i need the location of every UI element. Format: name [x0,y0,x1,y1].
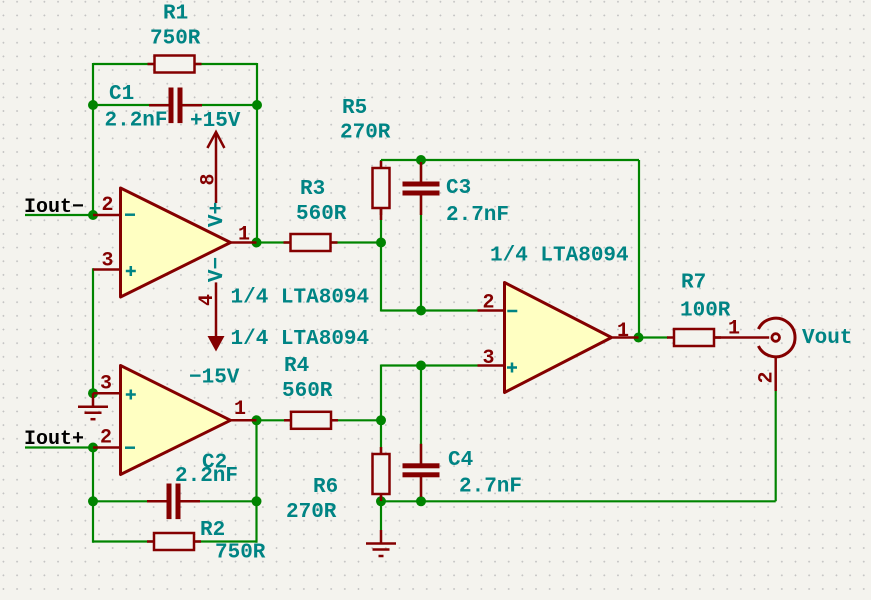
svg-text:Iout−: Iout− [24,196,84,219]
svg-text:560R: 560R [296,203,347,226]
svg-text:8: 8 [197,173,220,185]
svg-text:1/4 LTA8094: 1/4 LTA8094 [231,328,370,351]
svg-text:+15V: +15V [190,110,241,133]
svg-text:270R: 270R [340,121,391,144]
svg-text:V−: V− [206,257,229,282]
svg-text:3: 3 [483,347,495,370]
svg-text:2: 2 [102,194,114,217]
svg-text:R3: R3 [300,178,325,201]
svg-text:100R: 100R [680,299,731,322]
svg-text:R1: R1 [163,2,188,25]
svg-text:2: 2 [100,426,112,449]
svg-text:2.2nF: 2.2nF [175,465,238,488]
svg-text:C3: C3 [446,177,471,200]
svg-text:1/4 LTA8094: 1/4 LTA8094 [231,286,370,309]
svg-text:270R: 270R [286,501,337,524]
svg-text:3: 3 [102,249,114,272]
svg-text:1: 1 [234,398,246,421]
svg-text:750R: 750R [215,541,266,564]
svg-text:4: 4 [196,294,219,306]
svg-text:C1: C1 [109,83,134,106]
svg-text:1: 1 [238,223,250,246]
svg-text:1: 1 [728,317,740,340]
svg-text:Iout+: Iout+ [24,428,84,451]
svg-text:2.7nF: 2.7nF [446,204,509,227]
svg-text:2.2nF: 2.2nF [105,109,168,132]
svg-text:R7: R7 [681,271,706,294]
svg-text:2: 2 [755,371,778,383]
svg-text:2: 2 [483,291,495,314]
svg-text:C4: C4 [448,449,473,472]
svg-text:R6: R6 [313,476,338,499]
svg-text:R5: R5 [342,97,367,120]
svg-text:V+: V+ [206,202,229,227]
svg-text:Vout: Vout [802,327,852,350]
svg-text:3: 3 [100,372,112,395]
svg-text:560R: 560R [282,380,333,403]
svg-text:750R: 750R [150,27,201,50]
svg-text:R2: R2 [200,519,225,542]
svg-text:R4: R4 [284,355,309,378]
svg-text:1: 1 [617,320,629,343]
svg-text:1/4 LTA8094: 1/4 LTA8094 [490,245,629,268]
svg-text:2.7nF: 2.7nF [459,475,522,498]
svg-text:−15V: −15V [189,367,240,390]
